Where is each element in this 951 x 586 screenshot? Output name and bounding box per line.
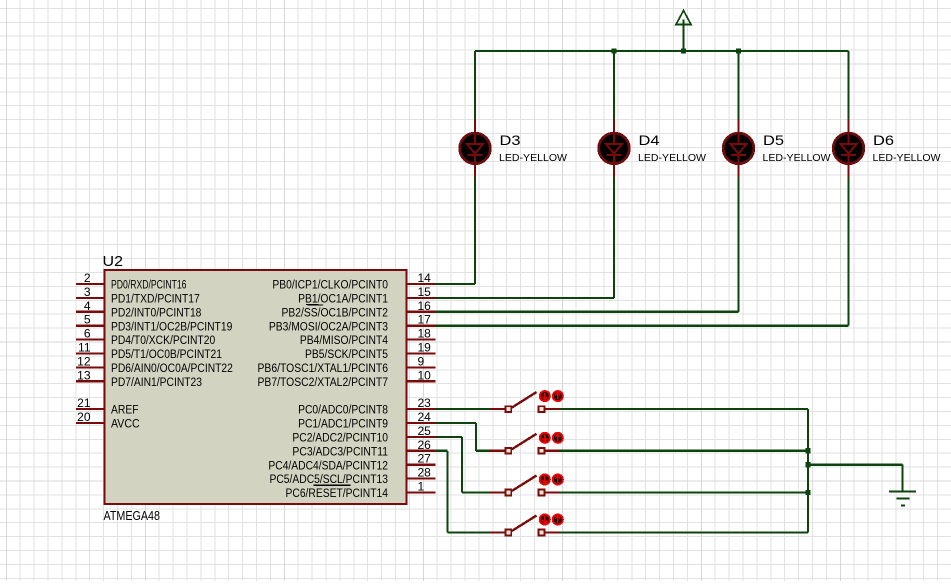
junction on bus at VCC column [681, 48, 686, 53]
U2 pin name PD0/RXD/PCINT16 [111, 280, 187, 292]
U2 pin 20 stub (AVCC) [76, 422, 105, 424]
U2 pin 21 stub (AREF) [76, 408, 105, 410]
switch SW2 (SPST interactive) [490, 433, 563, 454]
svg-text:PC5/ADC5/SCL/PCINT13: PC5/ADC5/SCL/PCINT13 [270, 474, 389, 486]
svg-text:PD1/TXD/PCINT17: PD1/TXD/PCINT17 [111, 294, 200, 306]
U2 pin 19 stub (PB5) [407, 352, 436, 354]
U2 pin name PB3/MOSI/OC2A/PCINT3 [269, 321, 388, 333]
junction on bus at D4 column [611, 48, 616, 53]
U2 pin number 14 [418, 271, 432, 285]
U2 pin number 24 [418, 410, 432, 424]
wire: right vertical bus [807, 409, 809, 532]
U2 pin number 19 [418, 341, 432, 355]
svg-text:16: 16 [418, 299, 432, 313]
svg-text:12: 12 [77, 354, 91, 368]
U2 pin 13 stub (PD7) [76, 380, 105, 382]
U2 pin 11 stub (PD5) [76, 352, 105, 354]
U2 pin number 17 [418, 313, 432, 327]
U2 pin name PC4/ADC4/SDA/PCINT12 [268, 460, 388, 472]
U2 pin number 23 [418, 396, 432, 410]
LED value label LED-YELLOW [499, 152, 567, 164]
U2 pin name PB4/MISO/PCINT4 [300, 335, 389, 347]
U2 pin name PB0/ICP1/CLKO/PCINT0 [272, 280, 388, 292]
U2 pin name PB1/OC1A/PCINT1 [298, 294, 388, 306]
LED value label LED-YELLOW [638, 152, 706, 164]
svg-text:D4: D4 [639, 132, 660, 148]
U2 pin 14 stub (PB0) [407, 283, 436, 285]
svg-text:2: 2 [84, 271, 91, 285]
LED refdes label D4 [639, 132, 660, 148]
U2 pin name PC5/ADC5/SCL/PCINT13 [270, 474, 389, 486]
U2 pin name PB7/TOSC2/XTAL2/PCINT7 [258, 377, 389, 389]
svg-text:PD2/INT0/PCINT18: PD2/INT0/PCINT18 [111, 307, 201, 319]
junction right bus / SW2 row [805, 448, 810, 453]
U2 pin number 6 [84, 327, 91, 341]
U2 pin number 27 [418, 452, 432, 466]
svg-text:27: 27 [418, 452, 432, 466]
wire: switch SW4 to right bus [560, 531, 809, 533]
switch SW1 (SPST interactive) [490, 391, 563, 412]
svg-text:25: 25 [418, 424, 432, 438]
svg-text:PD4/T0/XCK/PCINT20: PD4/T0/XCK/PCINT20 [111, 335, 215, 347]
U2 pin number 2 [84, 271, 91, 285]
U2 pin name PD3/INT1/OC2B/PCINT19 [111, 321, 232, 333]
svg-text:PC0/ADC0/PCINT8: PC0/ADC0/PCINT8 [298, 405, 388, 417]
U2 pin number 10 [418, 368, 432, 382]
wire: switch SW2 to right bus [560, 450, 809, 452]
U2 pin name PC2/ADC2/PCINT10 [292, 433, 388, 445]
U2 pin 12 stub (PD6) [76, 366, 105, 368]
U2 pin name PD4/T0/XCK/PCINT20 [111, 335, 215, 347]
svg-text:17: 17 [418, 313, 432, 327]
U2 reference designator label [103, 253, 124, 270]
switch SW3 (SPST interactive) [490, 475, 563, 496]
U2 value label ATMEGA48 [104, 508, 161, 523]
U2 pin name PB5/SCK/PCINT5 [305, 349, 388, 361]
svg-text:PB5/SCK/PCINT5: PB5/SCK/PCINT5 [305, 349, 388, 361]
svg-text:28: 28 [418, 466, 432, 480]
U2 pin number 11 [78, 341, 91, 355]
IC U2 (ATMEGA48) body [105, 270, 407, 504]
LED refdes label D3 [500, 132, 521, 148]
svg-text:26: 26 [418, 438, 432, 452]
U2 pin 23 stub (PC0) [407, 408, 436, 410]
svg-text:5: 5 [84, 313, 91, 327]
U2 pin number 20 [77, 410, 91, 424]
U2 pin name AREF [111, 405, 139, 417]
junction right bus / ground branch [805, 462, 810, 467]
svg-text:PB6/TOSC1/XTAL1/PCINT6: PB6/TOSC1/XTAL1/PCINT6 [258, 363, 389, 375]
svg-text:18: 18 [418, 327, 432, 341]
switch SW4 (SPST interactive) [490, 515, 563, 536]
U2 pin 4 stub (PD2) [76, 311, 105, 313]
LED refdes label D6 [873, 132, 894, 148]
svg-text:PB2/SS/OC1B/PCINT2: PB2/SS/OC1B/PCINT2 [282, 307, 389, 319]
ground symbol [889, 492, 916, 506]
svg-text:15: 15 [418, 285, 432, 299]
U2 pin number 25 [418, 424, 432, 438]
wire: D4 cathode down to pin row [613, 177, 615, 298]
svg-text:PC6/RESET/PCINT14: PC6/RESET/PCINT14 [286, 488, 389, 500]
U2 pin number 12 [77, 354, 91, 368]
LED D3 (LED-YELLOW) [460, 120, 491, 178]
wire: pin row to chip (pin 14) [436, 283, 476, 285]
svg-text:24: 24 [418, 410, 432, 424]
svg-text:LED-YELLOW: LED-YELLOW [638, 152, 706, 164]
wire: pin row to chip (pin 15) [436, 297, 615, 299]
svg-text:PC2/ADC2/PCINT10: PC2/ADC2/PCINT10 [292, 433, 388, 445]
wire: pin 23 to switch 1 [436, 408, 491, 410]
svg-text:LED-YELLOW: LED-YELLOW [499, 152, 567, 164]
svg-text:PB1/OC1A/PCINT1: PB1/OC1A/PCINT1 [298, 294, 388, 306]
power symbol VCC (arrow) [676, 11, 691, 52]
svg-text:D6: D6 [873, 132, 894, 148]
LED refdes label D5 [763, 132, 784, 148]
svg-text:PC1/ADC1/PCINT9: PC1/ADC1/PCINT9 [298, 419, 388, 431]
svg-text:AREF: AREF [111, 405, 139, 417]
U2 pin 27 stub (PC4) [407, 464, 436, 466]
svg-text:LED-YELLOW: LED-YELLOW [763, 152, 831, 164]
svg-text:9: 9 [418, 354, 425, 368]
U2 pin number 3 [84, 285, 91, 299]
U2 pin 3 stub (PD1) [76, 297, 105, 299]
junction on bus at D5 column [736, 48, 741, 53]
wire: bus to ground [808, 465, 903, 492]
U2 pin name PB6/TOSC1/XTAL1/PCINT6 [258, 363, 389, 375]
U2 pin number 21 [77, 396, 91, 410]
U2 pin number 26 [418, 438, 432, 452]
svg-text:AVCC: AVCC [111, 419, 140, 431]
U2 pin 5 stub (PD3) [76, 325, 105, 327]
svg-text:U2: U2 [103, 253, 124, 270]
U2 pin 16 stub (PB2) [407, 311, 436, 313]
svg-text:PC3/ADC3/PCINT11: PC3/ADC3/PCINT11 [292, 446, 388, 458]
svg-text:LED-YELLOW: LED-YELLOW [873, 152, 941, 164]
svg-text:ATMEGA48: ATMEGA48 [104, 508, 161, 523]
svg-text:PB3/MOSI/OC2A/PCINT3: PB3/MOSI/OC2A/PCINT3 [269, 321, 388, 333]
U2 pin 10 stub (PB7) [407, 380, 436, 382]
U2 pin number 4 [84, 299, 91, 313]
U2 pin 25 stub (PC2) [407, 436, 436, 438]
wire: switch SW3 to right bus [560, 491, 809, 493]
U2 pin number 1 [418, 480, 425, 494]
svg-text:14: 14 [418, 271, 432, 285]
wire: pin 25 to switch 3 [436, 437, 491, 493]
U2 pin 28 stub (PC5) [407, 478, 436, 480]
svg-text:6: 6 [84, 327, 91, 341]
U2 pin name PC3/ADC3/PCINT11 [292, 446, 388, 458]
U2 pin name PD1/TXD/PCINT17 [111, 294, 200, 306]
wire: power bus down to D6 anode [847, 51, 849, 121]
LED value label LED-YELLOW [763, 152, 831, 164]
wire: pin 24 to switch 2 [436, 423, 491, 451]
U2 pin 2 stub (PD0) [76, 283, 105, 285]
svg-text:PD0/RXD/PCINT16: PD0/RXD/PCINT16 [111, 280, 187, 292]
svg-text:4: 4 [84, 299, 91, 313]
svg-text:10: 10 [418, 368, 432, 382]
U2 pin 26 stub (PC3) [407, 450, 436, 452]
svg-text:D3: D3 [500, 132, 521, 148]
LED D5 (LED-YELLOW) [723, 120, 754, 178]
svg-text:PB0/ICP1/CLKO/PCINT0: PB0/ICP1/CLKO/PCINT0 [272, 280, 388, 292]
U2 pin number 15 [418, 285, 432, 299]
wire: pin row to chip (pin 16) [436, 311, 739, 313]
U2 pin name PC0/ADC0/PCINT8 [298, 405, 388, 417]
wire: top power bus [475, 50, 849, 52]
svg-text:3: 3 [84, 285, 91, 299]
U2 pin name AVCC [111, 419, 140, 431]
U2 pin number 16 [418, 299, 432, 313]
wire: power bus down to D5 anode [737, 51, 739, 121]
wire: power bus down to D3 anode [474, 51, 476, 121]
U2 pin name PC1/ADC1/PCINT9 [298, 419, 388, 431]
junction right bus / SW3 row [805, 490, 810, 495]
svg-text:PB7/TOSC2/XTAL2/PCINT7: PB7/TOSC2/XTAL2/PCINT7 [258, 377, 389, 389]
U2 pin number 28 [418, 466, 432, 480]
wire: pin 26 to switch 4 [436, 451, 491, 533]
U2 pin 15 stub (PB1) [407, 297, 436, 299]
U2 pin 24 stub (PC1) [407, 422, 436, 424]
wire: D5 cathode down to pin row [737, 177, 739, 312]
wire: D6 cathode down to pin row [847, 177, 849, 326]
U2 pin 9 stub (PB6) [407, 366, 436, 368]
svg-text:PB4/MISO/PCINT4: PB4/MISO/PCINT4 [300, 335, 389, 347]
U2 pin name PD6/AIN0/OC0A/PCINT22 [111, 363, 233, 375]
svg-text:PD3/INT1/OC2B/PCINT19: PD3/INT1/OC2B/PCINT19 [111, 321, 232, 333]
U2 pin number 5 [84, 313, 91, 327]
U2 pin 17 stub (PB3) [407, 325, 436, 327]
U2 pin name PB2/SS/OC1B/PCINT2 [282, 305, 389, 320]
U2 pin 18 stub (PB4) [407, 339, 436, 341]
svg-text:20: 20 [77, 410, 91, 424]
U2 pin number 9 [418, 354, 425, 368]
LED D6 (LED-YELLOW) [833, 120, 864, 178]
U2 pin number 18 [418, 327, 432, 341]
wire: switch SW1 to right bus [560, 408, 809, 410]
LED D4 (LED-YELLOW) [599, 120, 630, 178]
svg-text:PC4/ADC4/SDA/PCINT12: PC4/ADC4/SDA/PCINT12 [268, 460, 388, 472]
wire: pin row to chip (pin 17) [436, 325, 849, 327]
svg-text:PD6/AIN0/OC0A/PCINT22: PD6/AIN0/OC0A/PCINT22 [111, 363, 233, 375]
U2 pin name PC6/RESET/PCINT14 [286, 485, 389, 500]
wire: D3 cathode down to pin row [474, 177, 476, 284]
U2 pin name PD5/T1/OC0B/PCINT21 [111, 349, 222, 361]
svg-text:23: 23 [418, 396, 432, 410]
svg-text:D5: D5 [763, 132, 784, 148]
wire: power bus down to D4 anode [613, 51, 615, 121]
svg-text:PD7/AIN1/PCINT23: PD7/AIN1/PCINT23 [111, 377, 202, 389]
svg-text:13: 13 [77, 368, 91, 382]
U2 pin name PD7/AIN1/PCINT23 [111, 377, 202, 389]
U2 pin number 13 [77, 368, 91, 382]
svg-text:PD5/T1/OC0B/PCINT21: PD5/T1/OC0B/PCINT21 [111, 349, 222, 361]
svg-text:19: 19 [418, 341, 432, 355]
svg-text:1: 1 [418, 480, 425, 494]
svg-text:11: 11 [78, 341, 91, 355]
U2 pin name PD2/INT0/PCINT18 [111, 307, 201, 319]
LED value label LED-YELLOW [873, 152, 941, 164]
U2 pin 1 stub (PC6) [407, 491, 436, 493]
svg-text:21: 21 [77, 396, 91, 410]
U2 pin 6 stub (PD4) [76, 339, 105, 341]
